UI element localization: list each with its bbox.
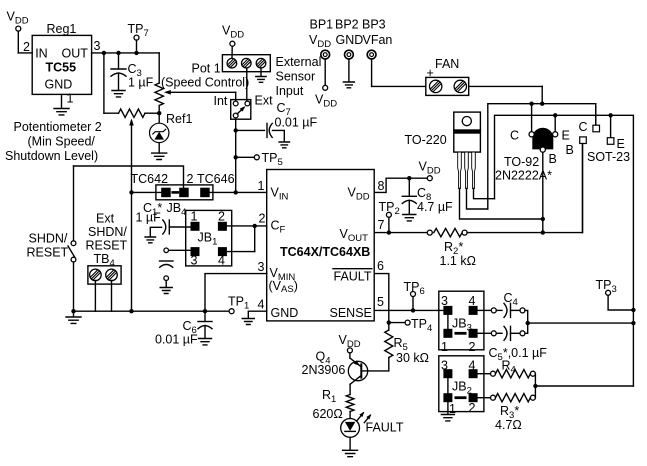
svg-text:4: 4 (218, 254, 225, 268)
wire Ext riser (middle screw to Ext) (246, 68, 248, 101)
svg-text:FAULT: FAULT (334, 270, 372, 284)
svg-text:4: 4 (469, 359, 476, 373)
svg-text:Ext: Ext (96, 212, 115, 226)
svg-text:(Min Speed/: (Min Speed/ (28, 135, 96, 149)
wire JB2 pad1 to ground (447, 402, 449, 414)
svg-text:FAN: FAN (435, 57, 459, 71)
svg-text:3: 3 (441, 294, 448, 308)
resistor R2 1.1k (427, 228, 476, 268)
wire Q4 base to R5 (361, 370, 389, 372)
svg-text:1 µF: 1 µF (136, 211, 162, 225)
ground (SHDN rail) (66, 311, 81, 323)
capacitor C1 1uF (136, 211, 192, 237)
potentiometer Pot 1 (Speed Control) (155, 53, 249, 113)
wire VDD to Pot1 block (231, 46, 233, 59)
svg-text:TO-220: TO-220 (405, 133, 447, 147)
wire JB1 pad3 to optional cap terminal (169, 249, 191, 251)
resistor R5 30k (385, 323, 429, 371)
svg-text:3: 3 (441, 359, 448, 373)
svg-text:SENSE: SENSE (330, 306, 372, 320)
ground (Reg1 pin 1) (54, 109, 69, 115)
transistor pad SOT-23 emitter (607, 115, 625, 151)
svg-text:Ext: Ext (255, 94, 274, 108)
svg-text:C: C (579, 120, 588, 134)
svg-text:3: 3 (191, 254, 198, 268)
svg-text:1: 1 (441, 340, 448, 354)
svg-text:0.01 µF: 0.01 µF (155, 333, 198, 347)
wire FAULT pin 6 (374, 274, 391, 325)
svg-text:1: 1 (191, 210, 198, 224)
svg-text:1: 1 (258, 179, 265, 193)
svg-text:TC646: TC646 (197, 172, 235, 186)
node E rail junction dots (553, 113, 613, 117)
svg-text:2N3906: 2N3906 (302, 363, 346, 377)
ground (BP2) (343, 82, 354, 88)
ground (C3) (112, 91, 125, 97)
test point TP6 (404, 280, 425, 310)
LED FAULT indicator (341, 412, 404, 438)
terminal block Pot 1 / External Sensor Input (222, 55, 321, 98)
capacitor C4 (478, 291, 525, 317)
wire Reg1 GND pin 1 (61, 94, 63, 108)
ground (C1) (145, 237, 155, 243)
test point TP5 (236, 151, 283, 168)
power terminal VDD (Q4) (339, 333, 361, 353)
wire R2 to base rail / SOT-23 B (467, 144, 582, 233)
svg-text:External: External (276, 55, 322, 69)
binding post BP3 (VFan) (362, 18, 392, 59)
svg-text:3: 3 (258, 260, 265, 274)
svg-text:+: + (427, 66, 434, 80)
label SOT-23 (587, 150, 630, 164)
transistor pad TO-92 2N2222A (495, 104, 570, 183)
svg-text:4.7Ω: 4.7Ω (495, 418, 522, 432)
terminal block FAN (426, 57, 469, 95)
wire GND pin 4 (248, 311, 266, 318)
label U1 pin names (269, 186, 372, 321)
ground (JB2) (441, 415, 454, 421)
capacitor C6 0.01uF (155, 311, 212, 346)
svg-text:IN: IN (35, 46, 48, 60)
svg-text:0.01 µF: 0.01 µF (275, 116, 318, 130)
svg-text:2: 2 (187, 172, 194, 186)
wire JB1 pad4 riser (227, 226, 255, 252)
test point TP1 (228, 295, 249, 314)
wire switch common down (VIN select net) (235, 119, 237, 192)
transistor pad SOT-23 collector (579, 104, 600, 134)
wire wiper to JB4 pad1 (129, 190, 161, 194)
svg-text:1 µF: 1 µF (128, 76, 154, 90)
svg-text:FAULT: FAULT (366, 421, 404, 435)
node TP5 junction (234, 155, 238, 159)
svg-text:5: 5 (377, 295, 384, 309)
ground (C8) (403, 215, 416, 221)
power terminal VDD (pin 8) (419, 160, 441, 181)
terminal block TB4 (88, 266, 121, 284)
capacitor C5 0.1uF (478, 326, 548, 363)
svg-text:BP1: BP1 (310, 18, 334, 32)
svg-text:Shutdown Level): Shutdown Level) (5, 149, 98, 163)
svg-text:Potentiometer 2: Potentiometer 2 (14, 120, 102, 134)
power terminal VDD (Pot 1 block) (222, 24, 244, 47)
svg-text:2: 2 (259, 212, 266, 226)
wire JB4 pad3 to VIN pin 1 (210, 190, 267, 194)
wire SHDN/VMIN select (to JB4 pad 2) (74, 166, 184, 188)
svg-text:E: E (617, 137, 625, 151)
switch SHDN/RESET (27, 166, 76, 311)
svg-text:7: 7 (378, 218, 385, 232)
wire BP3 to FAN block (372, 59, 426, 86)
test point TP3 (596, 278, 636, 312)
capacitor C8 4.7uF (402, 176, 453, 214)
wire LED cathode to ground (349, 437, 351, 450)
svg-text:1.1 kΩ: 1.1 kΩ (440, 254, 476, 268)
svg-text:B: B (566, 143, 574, 157)
wire TO-92 base down (node B) (541, 152, 545, 235)
wire R3/R4 junction to E rail (533, 374, 633, 398)
test point TP4 (389, 317, 432, 334)
wire TP7 stem (136, 40, 138, 53)
ground (optional cap) (160, 288, 172, 294)
svg-text:2N2222A*: 2N2222A* (495, 169, 552, 183)
jumper block JB1 (186, 210, 232, 268)
svg-text:30 kΩ: 30 kΩ (396, 351, 429, 365)
svg-text:2: 2 (218, 210, 225, 224)
node junction C3/TP7 dots (102, 51, 139, 55)
svg-text:3: 3 (94, 39, 101, 53)
svg-text:SOT-23: SOT-23 (587, 150, 630, 164)
ground (Pot1 block) (256, 77, 266, 83)
svg-text:(Speed Control): (Speed Control) (161, 76, 249, 90)
jumper block JB3 (439, 291, 484, 354)
svg-text:TC642: TC642 (131, 172, 169, 186)
power terminal VDD (input) (7, 10, 29, 32)
svg-text:2: 2 (23, 40, 30, 54)
wire collector rail (node C) (488, 104, 596, 209)
svg-text:2: 2 (469, 340, 476, 354)
ground (LED) (343, 450, 358, 456)
ground (C6) (199, 339, 212, 345)
power terminal VDD (below BP1) (315, 85, 337, 109)
resistor R3 4.7ohm (478, 394, 536, 433)
svg-text:VFan: VFan (363, 33, 393, 47)
wire screw3 to ground (260, 68, 262, 76)
label Ext SHDN/RESET TB4 (86, 212, 128, 269)
svg-text:SHDN/: SHDN/ (29, 232, 68, 246)
node C7 junction (234, 128, 238, 132)
wire TO-220 emitter leg to E rail (474, 189, 495, 199)
ground (U1 pin 4) (242, 319, 254, 325)
svg-text:RESET: RESET (86, 239, 128, 253)
svg-text:BP3: BP3 (362, 18, 386, 32)
transistor pad SOT-23 base (566, 137, 587, 233)
resistor R1 620 (313, 388, 354, 421)
wire TO-220 collector leg to C rail (467, 189, 488, 210)
svg-text:Pot 1: Pot 1 (192, 62, 221, 76)
svg-text:4.7 µF: 4.7 µF (417, 200, 453, 214)
svg-text:TC64X/TC64XB: TC64X/TC64XB (280, 245, 370, 259)
svg-text:8: 8 (378, 179, 385, 193)
svg-text:GND: GND (45, 78, 73, 92)
svg-text:4: 4 (258, 298, 265, 312)
wire BP2 to ground (348, 59, 350, 82)
binding post BP2 (GND) (335, 18, 363, 59)
wire VDD to Reg1 IN pin 2 (18, 31, 32, 54)
svg-text:BP2: BP2 (335, 18, 359, 32)
wire C4/C5 junction to E rail (525, 310, 636, 333)
regulator Reg1 TC55 (32, 22, 100, 106)
reference diode Ref1 (150, 112, 193, 153)
svg-text:GND: GND (336, 33, 364, 47)
svg-text:TO-92: TO-92 (504, 155, 539, 169)
node C rail junction dots (529, 102, 544, 106)
wire potentiometer 2 wiper (VMIN net) (129, 119, 134, 312)
svg-text:GND: GND (271, 306, 299, 320)
svg-text:Reg1: Reg1 (47, 22, 77, 36)
transistor Q2 2N3906 (Q4) (302, 350, 368, 395)
jumper block JB2 (439, 356, 484, 416)
wire FAN- to collector rail (469, 86, 543, 103)
svg-text:B: B (549, 152, 557, 166)
wire BP1 to VDD terminal (324, 59, 326, 85)
svg-text:OUT: OUT (62, 46, 89, 60)
svg-text:6: 6 (377, 259, 384, 273)
wire TO-220 base leg to B rail (460, 189, 543, 220)
svg-text:Int: Int (214, 94, 228, 108)
svg-text:C: C (510, 129, 519, 143)
wire emitter rail (node E) (495, 115, 634, 386)
capacitor optional CF position (160, 248, 174, 287)
transistor pad TO-220 (405, 112, 481, 188)
label U1 pin numbers (258, 179, 385, 312)
svg-text:Ref1: Ref1 (166, 112, 192, 126)
svg-text:SHDN/: SHDN/ (88, 225, 127, 239)
test point TP2 (379, 200, 400, 235)
svg-text:1: 1 (67, 92, 74, 106)
op-amp U1 TC64X/TC64XB box (267, 170, 375, 321)
wire Pot 1 wiper to Int switch (164, 90, 236, 101)
svg-text:E: E (562, 129, 570, 143)
resistor R4 (478, 359, 536, 378)
wire TB4 screws to rail (95, 281, 111, 312)
capacitor C3 1uF (111, 53, 154, 90)
node pot1 bottom junction (157, 111, 161, 115)
svg-text:Sensor: Sensor (276, 70, 316, 84)
svg-text:4: 4 (469, 294, 476, 308)
wire SENSE pin 5 (374, 308, 443, 312)
svg-text:2: 2 (469, 401, 476, 415)
wire VDD pin 8 (374, 178, 427, 192)
wire VOUT pin 7 to R2 (374, 232, 427, 234)
svg-text:620Ω: 620Ω (313, 407, 343, 421)
potentiometer 2 (Min Speed/Shutdown Level) (5, 53, 159, 163)
wire VMIN pin 3 (203, 274, 267, 314)
capacitor C7 0.01uF (236, 101, 318, 142)
binding post BP1 (VDD) (309, 18, 333, 59)
wire OUT rail (node VREG) (92, 52, 160, 54)
ground (C7) (279, 142, 289, 148)
jumper block JB4 (131, 172, 235, 218)
switch Int/Ext (214, 94, 274, 120)
ground (Ref1) (152, 153, 167, 159)
svg-text:TC55: TC55 (46, 61, 77, 75)
svg-text:Input: Input (276, 84, 304, 98)
wire JB1 pad2 to CF pin 2 (227, 224, 267, 228)
test point TP7 (128, 22, 149, 40)
wire ground rail (VMIN/SHDN rail) (71, 309, 229, 313)
svg-text:RESET: RESET (27, 246, 69, 260)
